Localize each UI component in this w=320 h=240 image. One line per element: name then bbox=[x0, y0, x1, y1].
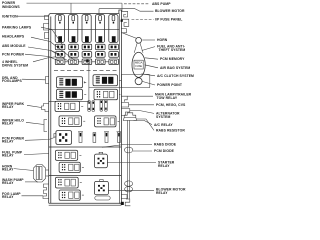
svg-text:FOGLAMPS: FOGLAMPS bbox=[2, 79, 23, 83]
maxi fuse F1 bbox=[55, 15, 64, 43]
leader: ac relay bbox=[134, 120, 153, 124]
right edge connector hooks bbox=[121, 96, 129, 115]
mini fuse row 2 bbox=[55, 52, 118, 58]
maxi fuse F4 bbox=[95, 15, 104, 43]
cavity S7 bbox=[95, 116, 117, 127]
relay R2 lower tab bbox=[95, 196, 110, 200]
leader: wash pump relay bbox=[25, 181, 38, 183]
fuse panel outline bbox=[49, 10, 122, 205]
starter relay cavity R1 bbox=[94, 152, 107, 167]
leader: air bag bbox=[145, 65, 159, 68]
leader: drl foglamps bbox=[22, 78, 46, 81]
svg-text:RELAY: RELAY bbox=[2, 167, 14, 171]
bottom-right clips bbox=[121, 195, 131, 206]
maxi fuse F5 bbox=[109, 15, 118, 43]
leader: pcm power relay bbox=[25, 138, 55, 141]
svg-text:A/C CLUTCH SYSTEM: A/C CLUTCH SYSTEM bbox=[157, 74, 194, 78]
dashed separator bbox=[54, 69, 118, 71]
cavity S5 bbox=[55, 101, 80, 111]
cavity S1 bbox=[57, 77, 83, 88]
svg-text:PARKING LAMPS: PARKING LAMPS bbox=[2, 25, 32, 29]
leader: horn bbox=[142, 39, 155, 41]
svg-text:RELAY: RELAY bbox=[2, 140, 14, 144]
I/P connector clips (top right) bbox=[121, 11, 129, 33]
svg-text:HEADLAMPS: HEADLAMPS bbox=[2, 34, 25, 38]
cavity S4 bbox=[94, 89, 118, 100]
svg-text:RABS RESISTOR: RABS RESISTOR bbox=[156, 129, 185, 133]
svg-text:PCM POWER: PCM POWER bbox=[2, 52, 24, 56]
divider lines bbox=[49, 146, 122, 148]
oval link 2 bbox=[125, 181, 133, 186]
leader: pcm power bbox=[25, 54, 49, 56]
leader: ip fuse panel bbox=[132, 18, 154, 20]
funnel lines bbox=[134, 43, 137, 53]
cavity B bbox=[59, 162, 80, 172]
blower motor relay cavity R2 bbox=[94, 180, 108, 195]
cavity C bbox=[55, 177, 78, 188]
vertical mini fuses row (mid) bbox=[88, 100, 107, 112]
relay cavity with pin dots (left) bbox=[54, 131, 72, 145]
leader: main lamp trailer tow bbox=[127, 95, 153, 97]
svg-text:HORN: HORN bbox=[157, 38, 168, 42]
svg-text:DRIVE SYSTEM: DRIVE SYSTEM bbox=[2, 64, 28, 68]
leader: pcm hego cvs bbox=[129, 104, 154, 106]
internal leader diagonals bbox=[51, 51, 68, 61]
cavity tick marks bbox=[79, 80, 121, 195]
row 3 dash links bbox=[65, 61, 119, 63]
svg-text:FUSE: FUSE bbox=[135, 64, 142, 68]
power point housing bbox=[121, 74, 149, 87]
leader: parking lamps bbox=[41, 27, 63, 45]
leader: abs module bbox=[28, 47, 60, 54]
fog lamp relay clips (left, outside) bbox=[43, 184, 49, 199]
leader: blower motor bbox=[99, 8, 135, 10]
leader: power point bbox=[142, 81, 155, 85]
svg-text:I/P FUSE PANEL: I/P FUSE PANEL bbox=[155, 18, 182, 22]
svg-text:PCM DIODE: PCM DIODE bbox=[154, 149, 175, 153]
leader: alternator system bbox=[130, 111, 154, 114]
leader: fuel anti-theft bbox=[142, 47, 155, 51]
leader: rabs resistor bbox=[137, 119, 154, 130]
leader: ac clutch bbox=[142, 74, 156, 76]
svg-text:THEFT SYSTEM: THEFT SYSTEM bbox=[159, 48, 186, 52]
svg-text:RELAY: RELAY bbox=[158, 164, 170, 168]
oval link 3 bbox=[125, 187, 133, 192]
mini fuse row 3 bbox=[55, 59, 118, 65]
svg-text:RELAY: RELAY bbox=[156, 191, 168, 195]
left edge connector bumps bbox=[42, 16, 49, 132]
leader: wiper park relay bbox=[27, 105, 42, 107]
leader: wiper hi-lo relay bbox=[26, 122, 44, 124]
vertical harness line bbox=[128, 120, 130, 199]
mini fuse row 1 bbox=[55, 44, 118, 50]
cavity D bbox=[59, 190, 80, 200]
leader: fog lamp relay bbox=[22, 195, 44, 197]
svg-text:TOW RELAY: TOW RELAY bbox=[157, 96, 178, 100]
svg-text:POWER POINT: POWER POINT bbox=[157, 83, 183, 87]
leader: headlamps bbox=[31, 37, 75, 60]
svg-text:PCM, HEGO, CVS: PCM, HEGO, CVS bbox=[156, 103, 186, 107]
leader: pcm diode bbox=[133, 150, 152, 152]
horn circle bbox=[136, 37, 142, 43]
mega fuse label box bbox=[134, 60, 143, 69]
leader: fuel pump relay bbox=[24, 154, 49, 155]
leader: rabs diode bbox=[102, 144, 152, 147]
oval link 1 bbox=[124, 147, 132, 153]
connector diagonal to horn circle bbox=[123, 33, 137, 38]
leader: horn relay bbox=[14, 169, 34, 171]
svg-text:RELAY: RELAY bbox=[2, 154, 14, 158]
svg-text:RABS DIODE: RABS DIODE bbox=[154, 143, 177, 147]
svg-text:RELAY: RELAY bbox=[2, 195, 14, 199]
small vertical elements row bbox=[78, 132, 122, 143]
svg-text:ABS PUMP: ABS PUMP bbox=[152, 2, 171, 6]
svg-text:ABS MODULE: ABS MODULE bbox=[2, 44, 26, 48]
leader: blower motor relay bbox=[108, 189, 154, 191]
maxi fuse F3 bbox=[82, 15, 91, 43]
leader: power windows / abs pump rail bbox=[27, 2, 123, 4]
svg-text:BLOWER MOTOR: BLOWER MOTOR bbox=[155, 9, 185, 13]
svg-text:AIR BAG SYSTEM: AIR BAG SYSTEM bbox=[160, 66, 190, 70]
mega fuse ellipse bbox=[132, 52, 145, 77]
leader: ignition bbox=[18, 15, 49, 17]
maxi fuse F2 bbox=[69, 15, 78, 43]
leader: starter relay bbox=[107, 162, 156, 164]
leader: pcm memory bbox=[145, 58, 158, 59]
fuse block shelf line bbox=[49, 29, 120, 31]
leader: 4wheel drive bbox=[33, 57, 56, 62]
cavity S6 bbox=[59, 116, 82, 127]
svg-text:RELAY: RELAY bbox=[2, 105, 14, 109]
svg-text:RELAY: RELAY bbox=[2, 122, 14, 126]
svg-text:PCM MEMORY: PCM MEMORY bbox=[160, 57, 185, 61]
svg-text:RELAY: RELAY bbox=[2, 181, 14, 185]
pedestal / A-C relay pad bbox=[123, 113, 137, 121]
cavity A bbox=[55, 150, 77, 160]
wire from fuse to mid elements bbox=[49, 60, 122, 102]
cavity S3 bbox=[57, 89, 83, 100]
svg-text:A/C RELAY: A/C RELAY bbox=[154, 123, 173, 127]
horn relay barrel connector (left, outside) bbox=[34, 165, 49, 183]
svg-text:IGNITION: IGNITION bbox=[2, 14, 18, 18]
power point circle bbox=[135, 78, 142, 85]
cavity S2 bbox=[93, 75, 118, 86]
svg-text:WINDOWS: WINDOWS bbox=[2, 5, 20, 9]
leader: abs pump vertical bbox=[121, 3, 123, 11]
svg-text:SYSTEM: SYSTEM bbox=[156, 115, 171, 119]
